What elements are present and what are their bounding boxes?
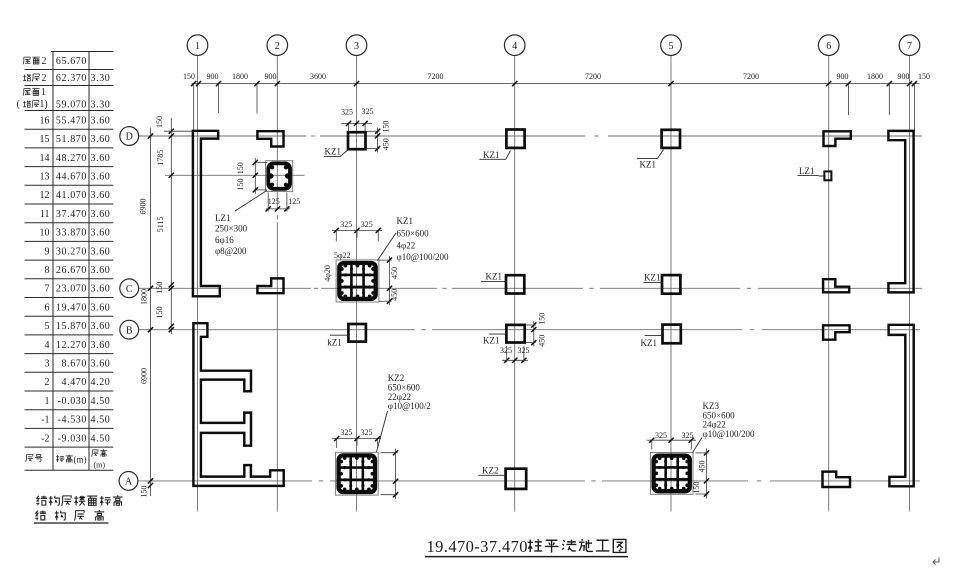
svg-text:150: 150	[140, 486, 149, 498]
label KZ2 at grid4/A	[478, 465, 505, 475]
svg-text:KZ1: KZ1	[325, 147, 342, 157]
dim 325+325 at grid3/D column	[341, 107, 374, 132]
KZ1 column at grid3/D	[348, 132, 366, 149]
svg-text:-2: -2	[41, 433, 49, 444]
svg-text:1): 1)	[39, 99, 47, 110]
svg-text:3.60: 3.60	[91, 246, 111, 257]
svg-text:-9.030: -9.030	[58, 433, 87, 444]
KZ1 column section detail at grid3/C	[336, 260, 379, 302]
svg-text:KZ2: KZ2	[482, 465, 499, 475]
svg-text:3.60: 3.60	[91, 265, 111, 276]
dim 150+450 at grid4/B column	[526, 313, 547, 347]
svg-text:4.50: 4.50	[91, 433, 111, 444]
svg-text:D: D	[126, 132, 133, 143]
svg-text:26.670: 26.670	[56, 265, 87, 276]
svg-text:450: 450	[538, 335, 547, 347]
KZ1 column at grid4/D	[506, 130, 524, 148]
wall pier L at grid6/A	[823, 472, 851, 487]
svg-text:4φ22: 4φ22	[397, 240, 416, 250]
svg-text:6900: 6900	[139, 199, 148, 215]
svg-text:φ10@100/200: φ10@100/200	[703, 429, 755, 439]
svg-text:KZ1: KZ1	[397, 216, 414, 226]
svg-text:59.070: 59.070	[56, 100, 87, 111]
wall pier L at grid6/B	[823, 325, 850, 339]
label KZ1 at grid4/B	[483, 334, 506, 346]
KZ2 column at grid4/A	[506, 469, 527, 489]
wall pier L at grid2/D	[257, 131, 283, 146]
svg-text:7: 7	[907, 41, 912, 52]
svg-text:62.370: 62.370	[56, 73, 87, 84]
svg-text:450: 450	[697, 461, 706, 473]
svg-text:1: 1	[195, 41, 200, 52]
svg-text:-0.030: -0.030	[58, 396, 87, 407]
KZ1 column at grid5/C	[662, 275, 680, 294]
svg-text:KZ1: KZ1	[486, 272, 503, 282]
top dimension line	[192, 83, 920, 85]
dim 450+450 at KZ1 section grid3/C	[379, 256, 399, 305]
svg-text:6900: 6900	[140, 368, 149, 384]
shear wall: bottom-left E-shaped wall (grid1, B-A)	[193, 323, 283, 486]
svg-text:7200: 7200	[585, 72, 601, 81]
svg-text:450: 450	[390, 267, 399, 279]
svg-text:5115: 5115	[156, 217, 165, 233]
svg-text:B: B	[126, 325, 133, 336]
svg-text:KZ1: KZ1	[641, 338, 658, 348]
svg-text:KZ3: KZ3	[703, 401, 720, 411]
label KZ1 at grid3/D	[324, 147, 349, 157]
svg-text:65.670: 65.670	[56, 56, 87, 67]
svg-text:LZ1: LZ1	[799, 166, 815, 176]
svg-text:23.070: 23.070	[56, 284, 87, 295]
svg-text:5φ22: 5φ22	[334, 251, 351, 260]
KZ1 column at grid4/B	[506, 325, 524, 343]
svg-text:1: 1	[45, 396, 50, 407]
label KZ1 at grid5/D	[637, 150, 664, 170]
svg-text:KZ1: KZ1	[483, 150, 500, 160]
svg-text:(m): (m)	[74, 454, 87, 464]
svg-text:8.670: 8.670	[62, 359, 88, 370]
svg-text:3.60: 3.60	[91, 321, 111, 332]
svg-text:900: 900	[265, 72, 277, 81]
svg-text:150: 150	[538, 313, 547, 325]
svg-text:KZ1: KZ1	[483, 336, 500, 346]
dim 150+150 at LZ1 section grid2	[236, 158, 267, 194]
svg-text:150: 150	[155, 116, 164, 128]
svg-text:51.870: 51.870	[56, 134, 87, 145]
svg-text:1785: 1785	[156, 150, 165, 166]
svg-text:15: 15	[40, 134, 50, 145]
svg-text:7: 7	[45, 284, 50, 295]
return mark	[933, 558, 939, 565]
svg-text:325: 325	[340, 428, 352, 437]
title: 19.470-37.470 column plan	[425, 537, 628, 557]
label KZ1 at grid4/D	[479, 150, 510, 160]
svg-text:9: 9	[45, 246, 50, 257]
svg-text:41.070: 41.070	[56, 190, 87, 201]
svg-text:150: 150	[236, 162, 245, 174]
svg-text:44.670: 44.670	[56, 172, 87, 183]
wall pier L at grid6/D	[824, 131, 851, 146]
svg-text:19.470: 19.470	[56, 302, 87, 313]
svg-text:6φ16: 6φ16	[215, 235, 234, 245]
svg-text:4.470: 4.470	[62, 377, 88, 388]
svg-text:14: 14	[40, 153, 50, 164]
KZ2 column section detail at grid3/A	[335, 452, 378, 495]
svg-text:4: 4	[512, 41, 517, 52]
wall pier L at grid6/C	[823, 279, 849, 292]
svg-text:3.60: 3.60	[91, 284, 111, 295]
svg-text:7200: 7200	[743, 72, 759, 81]
svg-text:3.60: 3.60	[91, 302, 111, 313]
svg-text:3.60: 3.60	[91, 134, 111, 145]
label KZ1 at grid5/C	[643, 272, 662, 282]
svg-text:5: 5	[45, 321, 50, 332]
LZ1 column at grid6 (below D)	[824, 171, 831, 180]
dim 325+325 at KZ2 section grid3/A	[332, 428, 381, 448]
svg-text:325: 325	[518, 346, 530, 355]
svg-text:3: 3	[45, 359, 50, 370]
svg-text:12: 12	[40, 190, 50, 201]
svg-text:C: C	[126, 284, 133, 295]
svg-text:150: 150	[692, 482, 701, 494]
svg-text:3.60: 3.60	[91, 228, 111, 239]
svg-text:900: 900	[898, 72, 910, 81]
shear wall: top-left bracket (grid1, D-C)	[193, 131, 220, 296]
svg-text:2: 2	[45, 377, 50, 388]
svg-text:4.50: 4.50	[91, 396, 111, 407]
centerline dash-dot breaks	[585, 135, 608, 137]
KZ1 spec block (650x600, 4phi22, phi10@100/200)	[377, 216, 449, 262]
svg-text:2: 2	[42, 56, 47, 67]
horizontal grid lines D C B A	[139, 135, 922, 137]
dim 325+325 at KZ3 section grid5/A	[647, 431, 696, 450]
KZ1 column at grid5/D	[662, 130, 680, 148]
svg-text:325: 325	[340, 220, 352, 229]
svg-text:325: 325	[341, 107, 353, 116]
svg-text:KZ1: KZ1	[640, 160, 657, 170]
svg-text:325: 325	[682, 431, 694, 440]
svg-text:3.60: 3.60	[91, 115, 111, 126]
KZ1 column at grid5/B	[663, 325, 681, 344]
svg-text:13: 13	[40, 172, 50, 183]
svg-text:KZ1: KZ1	[644, 272, 661, 282]
svg-text:33.870: 33.870	[56, 228, 87, 239]
svg-text:3.60: 3.60	[91, 190, 111, 201]
svg-text:3.60: 3.60	[91, 340, 111, 351]
label kZ1 at grid3/B	[327, 335, 348, 347]
wall pier L at grid2/C	[257, 278, 283, 293]
label LZ1 at grid6/D	[798, 166, 825, 176]
label KZ1 at grid4/C	[481, 272, 506, 282]
dim 450+150 at KZ2 section grid3/A	[381, 449, 399, 500]
svg-text:kZ1: kZ1	[327, 337, 342, 347]
svg-text:125: 125	[288, 197, 300, 206]
svg-text:150: 150	[183, 72, 195, 81]
svg-text:4.50: 4.50	[91, 415, 111, 426]
svg-text:φ8@200: φ8@200	[215, 246, 247, 256]
KZ2 spec block (650x600, 22phi22, phi10@100/2)	[377, 373, 431, 452]
svg-text:4φ20: 4φ20	[323, 265, 332, 282]
svg-text:250×300: 250×300	[215, 224, 248, 234]
dim 150+450 at grid3/D column	[366, 121, 390, 153]
svg-text:15.870: 15.870	[56, 321, 87, 332]
svg-text:10: 10	[40, 228, 50, 239]
svg-text:1800: 1800	[232, 72, 248, 81]
svg-text:450: 450	[381, 138, 390, 150]
extension lines below top dim	[193, 84, 195, 131]
svg-text:150: 150	[918, 72, 930, 81]
shear wall: right upper bracket (grid7, D-C)	[888, 131, 913, 293]
KZ3 column section detail at grid5/A	[650, 453, 693, 495]
svg-text:3.30: 3.30	[91, 100, 111, 111]
svg-text:325: 325	[500, 346, 512, 355]
svg-text:3.60: 3.60	[91, 172, 111, 183]
svg-text:325: 325	[361, 428, 373, 437]
svg-text:1800: 1800	[140, 289, 149, 305]
svg-text:A: A	[125, 477, 133, 488]
svg-text:24φ22: 24φ22	[703, 420, 726, 430]
svg-text:-4.530: -4.530	[58, 415, 87, 426]
svg-text:(: (	[17, 99, 21, 110]
left secondary dimension line	[170, 118, 172, 334]
KZ3 spec block (650x600, 24phi22, phi10@100/200)	[693, 401, 755, 453]
grid circles 1-7	[187, 35, 208, 56]
label KZ1 at grid5/B	[641, 335, 663, 348]
row circles D C B A	[120, 127, 139, 146]
svg-text:6: 6	[45, 302, 50, 313]
left main dimension line	[150, 128, 152, 497]
svg-text:φ10@100/2: φ10@100/2	[388, 401, 431, 411]
svg-text:3.60: 3.60	[91, 153, 111, 164]
intermediate line at 1785 below D	[165, 174, 305, 176]
svg-text:2: 2	[42, 73, 47, 84]
svg-text:-1: -1	[41, 415, 49, 426]
svg-text:4.20: 4.20	[91, 377, 111, 388]
svg-text:325: 325	[361, 220, 373, 229]
vertical grid lines 1-7	[197, 56, 199, 512]
svg-text:48.270: 48.270	[56, 153, 87, 164]
svg-text:11: 11	[40, 209, 50, 220]
caption: structural floor elevations	[34, 495, 123, 523]
svg-text:325: 325	[655, 431, 667, 440]
svg-text:1: 1	[41, 87, 46, 98]
svg-text:30.270: 30.270	[56, 246, 87, 257]
svg-text:150: 150	[236, 179, 245, 191]
svg-text:(m): (m)	[94, 461, 106, 470]
svg-text:3: 3	[354, 41, 359, 52]
svg-text:37.470: 37.470	[56, 209, 87, 220]
dim 325+325 at KZ1 section grid3/C	[332, 220, 382, 241]
svg-text:φ10@100/200: φ10@100/200	[397, 252, 449, 262]
svg-text:8: 8	[45, 265, 50, 276]
svg-text:16: 16	[40, 115, 50, 126]
svg-text:150: 150	[155, 282, 164, 294]
dim 125+125 at LZ1 section grid2	[266, 193, 301, 212]
svg-text:55.470: 55.470	[56, 115, 87, 126]
svg-text:1800: 1800	[867, 72, 883, 81]
svg-text:4: 4	[45, 340, 50, 351]
shear wall: right lower bracket (grid7, B-A)	[889, 325, 914, 487]
LZ1 spec block (250x300, 6phi16, phi8@200)	[215, 191, 267, 257]
svg-text:450: 450	[390, 289, 399, 301]
dim 325+325 at grid4/B column	[500, 346, 530, 363]
dim 450+150 at KZ3 section grid5/A	[692, 449, 709, 499]
svg-text:3600: 3600	[310, 72, 326, 81]
svg-text:7200: 7200	[428, 72, 444, 81]
svg-text:3.60: 3.60	[91, 209, 111, 220]
svg-text:125: 125	[268, 197, 280, 206]
LZ1 column section detail at grid2	[266, 161, 293, 192]
svg-text:900: 900	[207, 72, 219, 81]
svg-text:2: 2	[275, 41, 280, 52]
svg-text:900: 900	[837, 72, 849, 81]
svg-text:650×600: 650×600	[397, 229, 430, 239]
svg-text:150: 150	[381, 121, 390, 133]
KZ1 column at grid4/C	[506, 275, 524, 293]
svg-text:LZ1: LZ1	[215, 213, 231, 223]
svg-text:12.270: 12.270	[56, 340, 87, 351]
svg-text:5: 5	[669, 41, 674, 52]
kZ1 column at grid3/B	[348, 324, 366, 342]
floor-level table	[17, 52, 114, 471]
svg-text:150: 150	[155, 307, 164, 319]
svg-text:325: 325	[362, 107, 374, 116]
svg-text:6: 6	[826, 41, 831, 52]
svg-text:3.60: 3.60	[91, 359, 111, 370]
svg-text:3.30: 3.30	[91, 73, 111, 84]
svg-text:19.470-37.470: 19.470-37.470	[427, 537, 528, 556]
